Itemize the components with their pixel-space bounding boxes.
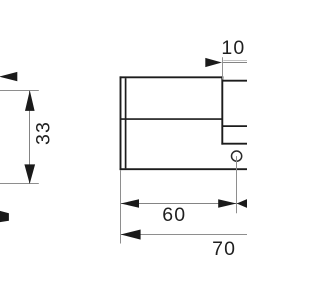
chained dim cut-off arrow [237,199,248,208]
cylinder body top edge [120,76,224,78]
33 dim up arrow [25,90,35,111]
rear section top edge [222,80,247,82]
svg-text:70: 70 [212,238,236,260]
33 dim down arrow [24,164,35,184]
cylinder body inner left line [125,78,127,168]
svg-text:60: 60 [162,204,186,226]
extension line bottom-left (33 dim lower) [0,183,39,185]
rear section mid line [222,125,247,127]
left cut-off arrow top [0,72,17,81]
10 dimension line [222,62,247,64]
10 dim arrow [205,58,222,67]
33 dimension vertical line [29,91,31,184]
extension line top-left (33 dim upper) [0,90,39,92]
70 dimension line [121,234,247,236]
svg-text:10: 10 [221,37,245,59]
left cut-off arrow bottom [0,211,9,222]
cylinder body bottom edge [120,168,247,170]
extension line from screw hole center [236,156,238,213]
cylinder body left face [120,76,122,170]
60 dimension line [121,203,237,205]
rear section bottom edge [221,143,247,145]
extension line below body left face [120,170,122,243]
60 dim left arrow [121,199,139,207]
screw hole circle [232,151,242,161]
chained dimension line to right edge [237,203,247,205]
60 dim right arrow [218,199,236,207]
cylinder body right face [221,76,223,144]
cylinder body mid line [121,118,223,120]
10 dim extension line [222,57,224,79]
10 dim faint upper line [223,60,247,62]
svg-text:33: 33 [33,121,55,145]
70 dim left arrow [121,230,141,240]
